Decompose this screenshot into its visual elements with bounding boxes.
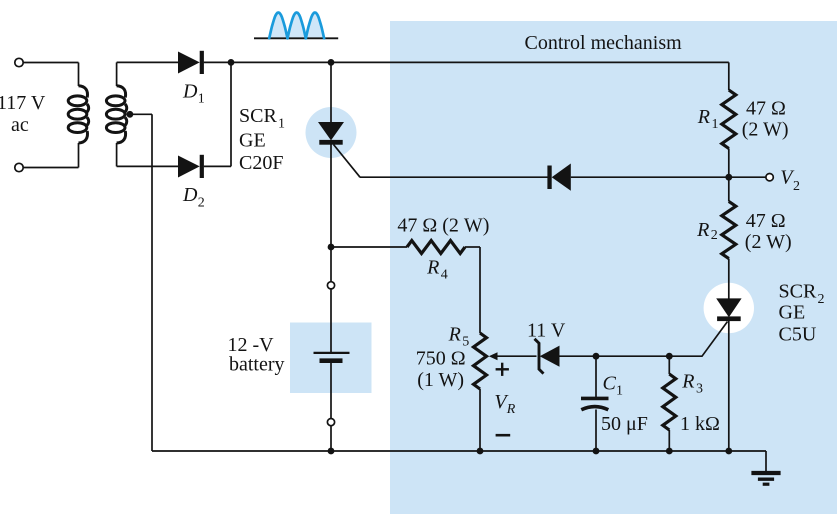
svg-text:1: 1	[712, 117, 719, 132]
svg-text:47 Ω: 47 Ω	[746, 210, 786, 232]
svg-text:2: 2	[818, 292, 825, 307]
svg-text:R: R	[697, 106, 710, 128]
svg-text:C20F: C20F	[239, 152, 283, 174]
svg-text:R: R	[448, 324, 461, 346]
svg-text:ac: ac	[11, 114, 29, 136]
svg-text:GE: GE	[779, 302, 806, 324]
svg-text:50 μF: 50 μF	[601, 413, 648, 435]
svg-text:47 Ω: 47 Ω	[746, 97, 786, 119]
svg-text:D: D	[182, 80, 198, 102]
svg-text:2: 2	[711, 228, 718, 243]
svg-text:1: 1	[616, 384, 623, 399]
svg-text:117 V: 117 V	[0, 92, 46, 114]
svg-text:(2 W): (2 W)	[742, 118, 789, 140]
svg-text:R: R	[681, 371, 694, 393]
svg-text:C5U: C5U	[779, 323, 817, 345]
svg-text:2: 2	[793, 179, 800, 194]
svg-text:R: R	[506, 402, 516, 417]
svg-text:SCR: SCR	[239, 105, 277, 127]
svg-text:2: 2	[198, 195, 205, 210]
svg-text:SCR: SCR	[779, 281, 817, 303]
svg-text:(2 W): (2 W)	[745, 231, 792, 253]
svg-text:750 Ω: 750 Ω	[416, 348, 466, 370]
svg-text:R: R	[426, 257, 439, 279]
svg-text:1 kΩ: 1 kΩ	[680, 413, 720, 435]
svg-text:11 V: 11 V	[527, 320, 566, 342]
svg-text:D: D	[182, 184, 198, 206]
svg-text:C: C	[603, 373, 617, 395]
svg-text:(1 W): (1 W)	[417, 369, 464, 391]
svg-text:3: 3	[696, 382, 703, 397]
svg-text:1: 1	[198, 91, 205, 106]
svg-text:1: 1	[278, 116, 285, 131]
svg-text:Control mechanism: Control mechanism	[525, 32, 683, 54]
svg-text:4: 4	[441, 268, 448, 283]
svg-text:battery: battery	[229, 353, 285, 375]
svg-text:R: R	[696, 219, 709, 241]
svg-text:GE: GE	[239, 130, 266, 152]
svg-text:47 Ω (2 W): 47 Ω (2 W)	[397, 214, 489, 236]
